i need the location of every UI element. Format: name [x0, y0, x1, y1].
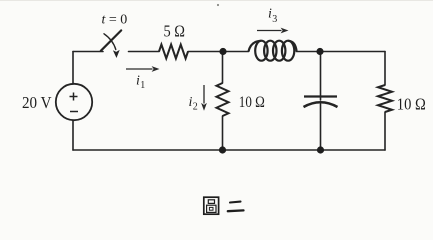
svg-text:t = 0: t = 0	[102, 12, 128, 27]
svg-text:10 Ω: 10 Ω	[397, 95, 426, 114]
svg-text:10 Ω: 10 Ω	[239, 94, 265, 111]
svg-text:1: 1	[140, 80, 145, 91]
svg-text:20 V: 20 V	[22, 93, 52, 112]
svg-text:5 Ω: 5 Ω	[164, 21, 186, 40]
svg-text:3: 3	[272, 14, 277, 25]
svg-text:2: 2	[193, 102, 198, 113]
